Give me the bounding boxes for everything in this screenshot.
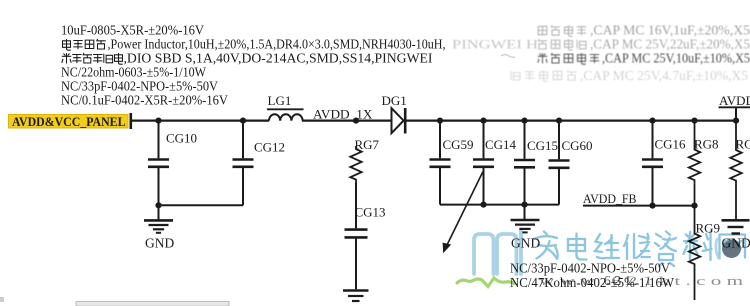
ground GND middle [511,205,541,251]
svg-text:GND: GND [145,236,174,251]
resistor RG7 [350,137,379,183]
wire bottom rail CG59-CG60 [440,204,559,206]
faint note right line 2 [538,38,750,53]
junction [480,202,486,208]
svg-text:CG16: CG16 [655,137,687,152]
svg-text:NC/0.1uF-0402-X5R-±20%-16V: NC/0.1uF-0402-X5R-±20%-16V [61,94,228,109]
capacitor CG12 [233,121,286,206]
svg-text:CG59: CG59 [443,137,474,152]
watermark sphere [716,238,741,259]
svg-text:6 2 1: 6 2 1 [604,273,631,288]
watermark char 料 [684,232,712,261]
junction dots on main rail [155,118,739,124]
value note line 2 (CJK 功率电感) [63,39,106,50]
capacitor CG13 [345,205,386,290]
svg-text:RG8: RG8 [694,137,719,152]
ground GND left [144,205,174,250]
faint note right line 4 [511,69,748,84]
watermark [457,230,745,288]
wire main horizontal AVDD&VCC_PANEL to AVDD rail [132,119,269,121]
svg-text:PINGWEI H: PINGWEI H [452,38,538,52]
svg-text:10uF-0805-X5R-±20%-16V: 10uF-0805-X5R-±20%-16V [61,24,204,39]
faint mark [501,55,515,58]
resistor RG8 [689,121,719,206]
svg-text:RG7: RG7 [355,137,380,152]
watermark char 网 [720,235,746,259]
svg-text:RG9: RG9 [696,221,721,236]
svg-text:CG14: CG14 [485,137,517,152]
svg-text:CG60: CG60 [562,138,593,153]
watermark char 资 [655,232,676,267]
gray bar bottom left [76,302,229,306]
capacitor CG59 [430,121,474,205]
svg-text:AVDD&VCC_PANEL: AVDD&VCC_PANEL [12,115,126,129]
diode DG1 [392,108,406,134]
watermark green squiggle [457,278,514,287]
svg-text:CG15: CG15 [527,138,558,153]
resistor RG6 (right, clipped) [730,121,750,219]
resistor RG9 [689,206,720,300]
svg-text:AVDD_FB: AVDD_FB [583,191,637,206]
svg-text:CG10: CG10 [166,131,197,146]
wire RG7 to CG13 [355,183,357,229]
capacitor CG60 [549,121,593,205]
svg-text:,CAP MC 25V,10uF,±10%,X5: ,CAP MC 25V,10uF,±10%,X5 [602,52,750,67]
wire bottom rail CG10-CG12 [159,204,244,206]
watermark char 电 [568,234,587,260]
capacitor CG10 [148,121,197,206]
svg-text:,DIO SBD S,1A,40V,DO-214AC,SMD: ,DIO SBD S,1A,40V,DO-214AC,SMD,SS14,PING… [124,52,433,67]
svg-text:RG6: RG6 [736,137,750,152]
ground below CG13 [343,291,369,302]
faint note right line 1 [538,24,750,39]
svg-text:NC/33pF-0402-NPO-±5%-50V: NC/33pF-0402-NPO-±5%-50V [61,80,218,95]
watermark char 修 [624,234,650,259]
capacitor CG15 [514,121,558,205]
power AVDD top right [719,93,750,121]
inductor LG1 [269,114,303,120]
svg-text:AVDD: AVDD [719,93,750,108]
svg-text:NC/22ohm-0603-±5%-1/10W: NC/22ohm-0603-±5%-1/10W [61,66,207,81]
capacitor CG14 [473,121,517,205]
value note line 3 (CJK 肖特基二极管) [62,53,123,64]
svg-text:LG1: LG1 [268,93,292,108]
svg-text:,CAP MC 25V,4.7uF,±10%,X5: ,CAP MC 25V,4.7uF,±10%,X5 [580,69,748,84]
net AVDD_FB [583,191,698,209]
watermark char 维 [595,234,619,258]
svg-text:,Power Inductor,10uH,±20%,1.5A: ,Power Inductor,10uH,±20%,1.5A,DR4.0×3.0… [108,38,446,53]
svg-text:AVDD_1X: AVDD_1X [313,106,373,121]
gray mark left edge [0,297,4,302]
wire [302,119,392,121]
junction [521,202,527,208]
note right line 3 [538,52,750,67]
ground right under RG6 [722,220,750,233]
svg-text:DG1: DG1 [382,93,407,108]
svg-text:CG13: CG13 [355,205,386,220]
junction [155,202,161,208]
svg-text:CG12: CG12 [254,140,285,155]
label LG1 [267,93,304,109]
svg-text:,CAP MC 16V,1uF,±20%,X5: ,CAP MC 16V,1uF,±20%,X5 [590,24,750,39]
annotation arrow [443,172,483,254]
watermark char 家 [534,232,558,260]
port AVDD&VCC_PANEL [9,113,133,129]
wire [406,119,736,121]
svg-text:w w w . 6 2 1 k t . c o m: w w w . 6 2 1 k t . c o m [539,273,743,288]
capacitor CG16 [642,121,686,206]
watermark logo book [474,230,521,274]
svg-text:,CAP MC 25V,22uF,±20%,X5: ,CAP MC 25V,22uF,±20%,X5 [590,38,750,53]
